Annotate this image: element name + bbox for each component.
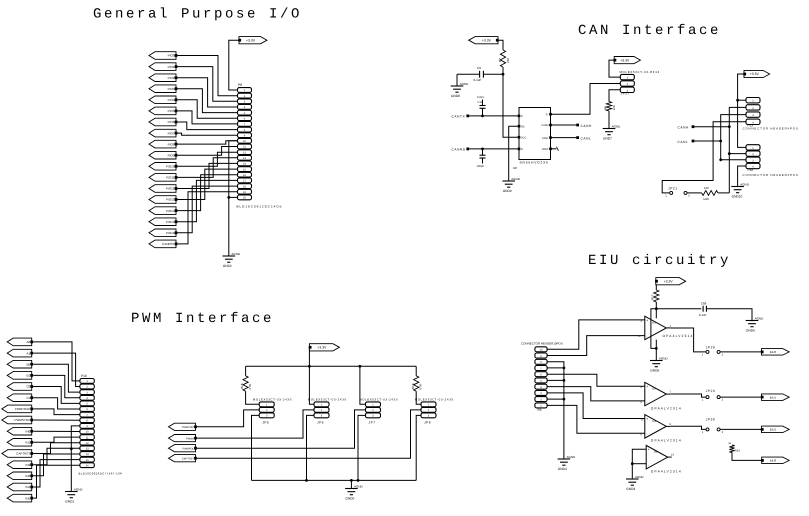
- junction C10 tap: [481, 115, 484, 118]
- wire R16 to JP8 pin1: [416, 391, 421, 404]
- svg-text:JP30: JP30: [706, 418, 716, 422]
- op-amp U9D OPA4LV2314 (unused): [646, 445, 682, 473]
- svg-text:A0: A0: [27, 340, 31, 344]
- resistor R16 4.7K: [411, 366, 423, 391]
- wire PIO13 to P8 pin15: [178, 169, 238, 199]
- wire IN4 to P10 pin15: [33, 460, 80, 487]
- wire CANRD to U8 pin R: [469, 148, 519, 150]
- wire U8 CANL to net label: [551, 137, 577, 139]
- resistor R15 4.7K: [240, 366, 252, 391]
- wire U9B out to JP29: [670, 394, 705, 397]
- net flag PWMTRAP: [2, 405, 33, 413]
- svg-text:AGND: AGND: [74, 488, 84, 492]
- connector P18 header 4-pin: [743, 145, 799, 177]
- svg-text:AGND: AGND: [354, 485, 364, 489]
- svg-text:PIO4: PIO4: [168, 98, 175, 102]
- net flag CANH (right): [678, 125, 695, 129]
- wire VCC to U8: [503, 74, 519, 137]
- wire R40 to CANH vertical: [718, 192, 729, 194]
- wire P18 pin4 to ground: [738, 166, 746, 187]
- wire PIO2 to P8 pin4: [178, 78, 238, 107]
- resistor R7 240: [498, 50, 510, 67]
- capacitor C9 0.1uF: [457, 66, 503, 82]
- net flag EIU1: [761, 394, 789, 401]
- jumper header JP5 MOLEX 3-pin: [253, 397, 292, 424]
- svg-text:PIO10: PIO10: [166, 165, 175, 169]
- svg-text:MOLEX53CT-03-243S: MOLEX53CT-03-243S: [308, 397, 347, 401]
- svg-text:PIO8: PIO8: [168, 142, 175, 146]
- svg-text:VREF: VREF: [542, 148, 549, 151]
- wire R17 to U9A V+: [655, 302, 657, 318]
- capacitor C68 0.1uF: [699, 302, 707, 317]
- wire JP21 pin2 to R40: [687, 192, 701, 194]
- net flag PWMPOL (PWM mid): [169, 445, 197, 452]
- jumper header JP27 MOLEX 3-pin: [620, 70, 660, 95]
- net flag PWMA (PWM mid): [169, 435, 197, 442]
- wire CANTX to U8 pin D: [469, 115, 519, 117]
- svg-text:GND3: GND3: [626, 487, 635, 491]
- svg-text:U9: U9: [654, 450, 658, 454]
- op-amp U9A OPA4LV2314: [638, 316, 694, 340]
- wire PIO5 to P8 pin7: [178, 111, 238, 124]
- capacitor C10 100pF: [477, 96, 486, 116]
- svg-text:+3.3V: +3.3V: [620, 58, 630, 62]
- svg-text:EIU3: EIU3: [770, 459, 777, 463]
- net flag EIU3: [761, 457, 789, 464]
- ground GND10 (P18): [731, 183, 749, 199]
- svg-text:OPA4LV2314: OPA4LV2314: [663, 334, 694, 338]
- wire U8 R pin to JP27 pin2: [551, 84, 621, 115]
- junction gnd bus: [563, 367, 566, 401]
- svg-text:MOLEX53CT-03-243S: MOLEX53CT-03-243S: [415, 397, 454, 401]
- jumper JP28: [702, 345, 724, 356]
- svg-text:CANH: CANH: [541, 124, 548, 127]
- svg-text:C1: C1: [26, 396, 30, 400]
- svg-text:R7: R7: [498, 58, 502, 62]
- wire gnd tap: [350, 480, 352, 488]
- svg-text:A1: A1: [27, 351, 31, 355]
- net flag PIO0: [149, 52, 177, 60]
- svg-text:-: -: [646, 400, 647, 404]
- net flag PIO12: [149, 185, 177, 193]
- wire power to top rail: [308, 349, 310, 367]
- svg-text:CAPTRST: CAPTRST: [16, 452, 30, 456]
- svg-text:0.1uF: 0.1uF: [699, 313, 707, 317]
- wire power to JP27 pin1: [609, 60, 620, 77]
- net flag IN3: [7, 472, 33, 480]
- svg-text:120: 120: [612, 105, 616, 110]
- op-amp U9B OPA4LV2314: [641, 382, 682, 410]
- wire P6 pin1 to U9C -in: [547, 405, 645, 433]
- svg-text:U9: U9: [652, 320, 656, 324]
- svg-text:+3.3V: +3.3V: [246, 38, 256, 42]
- svg-text:GND9: GND9: [503, 189, 512, 193]
- svg-text:PWM Interface: PWM Interface: [131, 311, 274, 327]
- ground GND0 (PWM): [345, 485, 363, 501]
- svg-text:B0: B0: [27, 362, 31, 366]
- junction C11 tap: [481, 148, 484, 151]
- net flag PIO9: [149, 151, 177, 159]
- svg-text:PIO16: PIO16: [166, 231, 175, 235]
- svg-text:+: +: [646, 318, 648, 322]
- wire PIO7 to P8 pin9: [178, 133, 238, 135]
- ground GND1 (P10): [65, 488, 83, 504]
- wire PIO16 to P8 pin18: [178, 186, 238, 233]
- svg-text:JP7: JP7: [369, 420, 376, 424]
- jumper JP21: [665, 187, 690, 198]
- junction V- node: [655, 347, 658, 350]
- jumper header JP8 MOLEX 3-pin: [415, 397, 454, 424]
- wire CANH vertical to P13/P18 pin2: [729, 107, 746, 192]
- wire CAPTRST to P10 pin12: [33, 443, 80, 454]
- net flag PIO15: [149, 218, 177, 226]
- junction power P13 pin1: [736, 99, 739, 102]
- svg-text:JP6: JP6: [317, 420, 324, 424]
- svg-text:IN0: IN0: [26, 429, 31, 433]
- wire rail to JP7 pin1: [360, 366, 366, 404]
- svg-text:AGND: AGND: [635, 475, 645, 479]
- svg-text:PIO12: PIO12: [166, 187, 175, 191]
- svg-text:JP27: JP27: [621, 92, 630, 96]
- svg-text:PIO14: PIO14: [166, 209, 175, 213]
- wire JP8 pin2 to flag row: [197, 410, 421, 458]
- net flag B1: [7, 372, 33, 380]
- wire JP29 to EIU1 flag: [721, 396, 762, 398]
- jumper header JP7 MOLEX 3-pin: [359, 397, 398, 424]
- svg-text:+3.3V: +3.3V: [482, 38, 492, 42]
- svg-text:CANL: CANL: [581, 137, 592, 141]
- svg-text:JP28: JP28: [706, 345, 716, 349]
- svg-text:AGND: AGND: [612, 125, 622, 129]
- wire U9D inputs tied to ground: [632, 449, 646, 479]
- net flag PIO13: [149, 196, 177, 204]
- net flag PIO3: [149, 85, 177, 93]
- svg-text:EIU0: EIU0: [770, 350, 777, 354]
- wire PWMSYNC to P10 pin8: [33, 419, 80, 421]
- svg-text:+3.3V: +3.3V: [664, 279, 674, 283]
- wire top rail: [246, 365, 417, 367]
- wire R8 to ground: [608, 111, 610, 129]
- svg-text:0.1uF: 0.1uF: [474, 78, 482, 82]
- wire PIO9 to P8 pin11: [178, 147, 238, 156]
- wire PIO15 to P8 pin17: [178, 180, 238, 221]
- junction bottom rail JP7: [357, 479, 360, 482]
- resistor R14 1k: [728, 442, 740, 452]
- svg-text:IN5: IN5: [26, 496, 31, 500]
- svg-text:EIU circuitry: EIU circuitry: [588, 253, 731, 269]
- net flag CAPTRST (PWM mid): [169, 455, 197, 462]
- svg-text:GND4: GND4: [558, 467, 567, 471]
- net flag PIO5: [149, 107, 177, 115]
- svg-text:+3.3V: +3.3V: [750, 72, 760, 76]
- svg-text:R14: R14: [735, 449, 741, 453]
- wire U8 RS to ground: [509, 126, 519, 181]
- svg-text:P18: P18: [748, 168, 754, 172]
- svg-text:100pF: 100pF: [477, 96, 485, 99]
- net flag IN1: [7, 439, 33, 447]
- svg-text:SN65HVD230: SN65HVD230: [520, 160, 549, 164]
- svg-text:+: +: [648, 448, 650, 452]
- junction bottom rail gnd tap: [350, 479, 353, 482]
- svg-text:IN4: IN4: [26, 485, 31, 489]
- svg-text:R40: R40: [704, 197, 710, 201]
- svg-text:PIO15: PIO15: [166, 220, 175, 224]
- wire rail to JP6 pin1: [309, 366, 314, 404]
- svg-text:BLD16C0812DC14Gb: BLD16C0812DC14Gb: [237, 204, 283, 208]
- svg-text:P10: P10: [81, 374, 87, 378]
- wire B0 to P10 pin3: [33, 364, 80, 392]
- ground GND7 (R8): [603, 125, 621, 141]
- wire PIO4 to P8 pin6: [178, 100, 238, 118]
- svg-text:PIO0: PIO0: [168, 54, 175, 58]
- svg-text:R16: R16: [411, 383, 415, 389]
- svg-text:120: 120: [704, 186, 709, 190]
- svg-text:+: +: [646, 385, 648, 389]
- svg-text:PWMA: PWMA: [186, 437, 194, 440]
- svg-text:D: D: [521, 115, 523, 118]
- svg-text:GND0: GND0: [345, 496, 354, 500]
- svg-text:PIO9: PIO9: [168, 153, 175, 157]
- svg-text:CANH: CANH: [678, 126, 690, 130]
- net flag PIO16: [149, 229, 177, 237]
- no-connect U8 VREF: [551, 147, 559, 151]
- net flag PIO8: [149, 140, 177, 148]
- wire power to R17: [655, 285, 657, 290]
- net flag PIO1: [149, 63, 177, 71]
- svg-text:IN1: IN1: [26, 441, 31, 445]
- ground GND5 (U9A): [650, 357, 668, 373]
- svg-text:CANL: CANL: [678, 140, 689, 144]
- resistor R8 120: [603, 102, 616, 112]
- net flag C1: [7, 394, 33, 402]
- net flag C0: [7, 383, 33, 391]
- svg-text:General Purpose I/O: General Purpose I/O: [93, 7, 302, 23]
- svg-text:-: -: [646, 334, 647, 338]
- net flag CANH (U8): [576, 124, 592, 128]
- svg-text:JP21: JP21: [668, 187, 678, 191]
- wire U9A V- to ground: [655, 340, 657, 361]
- jumper JP29: [702, 389, 724, 402]
- wire U8 CANH to net label: [551, 124, 577, 126]
- wire IN5 to P10 pin16: [33, 465, 80, 498]
- svg-text:IN2: IN2: [26, 463, 31, 467]
- svg-text:CANL: CANL: [542, 137, 549, 140]
- power flag +3.3V (CAN left): [469, 37, 499, 44]
- svg-text:+3.3V: +3.3V: [317, 346, 327, 350]
- wire U9A bypass loop: [651, 309, 656, 349]
- svg-text:GND1: GND1: [65, 499, 74, 503]
- svg-text:GND8: GND8: [451, 94, 460, 98]
- op-amp U9C OPA4LV2314: [641, 415, 682, 443]
- net flag PIO2: [149, 74, 177, 82]
- svg-text:OPA4LV2314: OPA4LV2314: [651, 469, 682, 473]
- net flag PIO4: [149, 96, 177, 104]
- connector P10 16-pin header: [79, 374, 123, 475]
- connector P13 header 4-pin: [743, 98, 799, 131]
- wire JP7 pin3 to bottom rail: [358, 415, 366, 480]
- svg-text:BLD16C0816DC7746T-16P: BLD16C0816DC7746T-16P: [79, 472, 123, 476]
- svg-text:240: 240: [506, 58, 510, 63]
- svg-text:CAPTRST: CAPTRST: [182, 457, 195, 460]
- svg-text:CONNECTOR HEADER10POS: CONNECTOR HEADER10POS: [521, 342, 563, 346]
- net flag IN5: [7, 494, 33, 502]
- wire PWMTRAP to P10 pin7: [33, 409, 80, 415]
- svg-text:PIO7: PIO7: [168, 131, 175, 135]
- svg-text:GND10: GND10: [732, 194, 743, 198]
- net flag EIU0: [761, 349, 789, 356]
- svg-text:-: -: [646, 432, 647, 436]
- wire CANL bus: [694, 140, 720, 142]
- svg-text:VCC: VCC: [521, 136, 526, 139]
- svg-text:4.7K: 4.7K: [418, 384, 422, 390]
- svg-text:CANRST: CANRST: [162, 242, 175, 246]
- svg-text:AGND: AGND: [231, 252, 241, 256]
- wire PIO10 to P8 pin12: [178, 152, 238, 166]
- wire C68 to ground: [706, 309, 752, 321]
- net flag B0: [7, 360, 33, 368]
- svg-text:JP29: JP29: [706, 389, 716, 393]
- svg-text:R8: R8: [603, 106, 607, 110]
- svg-text:IN3: IN3: [26, 474, 31, 478]
- net flag CANRD: [452, 147, 470, 151]
- svg-text:AGND: AGND: [511, 177, 521, 181]
- net flag CAPTRST: [2, 450, 33, 458]
- junction CANH: [728, 125, 731, 155]
- junction CANL: [719, 140, 722, 162]
- svg-text:PWMTRIP: PWMTRIP: [182, 426, 195, 429]
- net flag CANRST: [149, 240, 177, 248]
- svg-text:GND2: GND2: [223, 264, 232, 268]
- svg-text:JP8: JP8: [424, 420, 431, 424]
- svg-text:GND6: GND6: [746, 328, 755, 332]
- wire JP5 pin3 to bottom rail: [252, 415, 260, 480]
- ground GND2 (GPIO): [223, 252, 241, 268]
- wire PIO11 to P8 pin13: [178, 158, 238, 178]
- wire A1 to P10 pin2: [33, 353, 80, 386]
- wire PIO1 to P8 pin3: [178, 67, 238, 102]
- svg-text:PWMPOL: PWMPOL: [182, 447, 194, 450]
- svg-text:P6: P6: [538, 408, 542, 412]
- wire P8 gnd bus: [229, 141, 238, 256]
- svg-text:MOLEX53CT-03-243S: MOLEX53CT-03-243S: [359, 397, 398, 401]
- svg-text:R: R: [546, 113, 548, 116]
- op IC U8 SN65HVD230 CAN transceiver: [513, 108, 552, 170]
- wire JP7 pin2 to flag row: [197, 410, 366, 448]
- jumper JP30: [702, 418, 724, 434]
- svg-text:4.7K: 4.7K: [248, 384, 252, 390]
- svg-text:U9: U9: [652, 387, 656, 391]
- svg-text:GND7: GND7: [603, 136, 612, 140]
- wire JP5 pin2 to flag row: [197, 410, 259, 427]
- wire JP30 to EIU2 flag: [721, 428, 762, 430]
- wire C9 to ground: [456, 74, 458, 86]
- svg-text:C9: C9: [477, 66, 481, 70]
- wire power to P8 pin1: [229, 40, 241, 90]
- wire U9A out to JP28: [670, 328, 705, 352]
- svg-text:R: R: [521, 148, 523, 151]
- wire CANRST to P8 pin19: [178, 192, 238, 244]
- net flag PIO14: [149, 207, 177, 215]
- svg-text:JP5: JP5: [262, 420, 269, 424]
- svg-text:-: -: [648, 463, 649, 467]
- net flag CANTX: [452, 114, 470, 118]
- svg-text:EIU2: EIU2: [770, 428, 777, 432]
- wire IN1 to P10 pin11: [33, 437, 80, 442]
- connector P6 header 10-pin: [521, 342, 563, 412]
- net flag CANL (U8): [576, 136, 591, 140]
- svg-text:GND5: GND5: [650, 368, 659, 372]
- wire CANH bus: [694, 126, 729, 128]
- svg-text:OPA4LV2314: OPA4LV2314: [651, 439, 682, 443]
- wire P6 pin9 to U9A -in: [547, 336, 645, 356]
- junction rail power: [308, 365, 311, 368]
- net flag CANL (right): [678, 140, 695, 144]
- net flag IN4: [7, 483, 33, 491]
- power flag +3.3V (CAN right): [743, 70, 769, 77]
- wire R15 to JP5 pin1: [246, 391, 260, 404]
- junction P10 gnd: [70, 447, 73, 450]
- wire CANL vertical to P13/P18 pin3: [721, 115, 746, 160]
- junction bottom rail JP6: [305, 479, 308, 482]
- wire PIO3 to P8 pin5: [178, 89, 238, 113]
- ground GND8 (C9): [451, 82, 469, 98]
- wire R14 to EIU3 flag: [732, 453, 762, 461]
- svg-text:R15: R15: [240, 383, 244, 389]
- svg-text:PIO11: PIO11: [166, 176, 175, 180]
- power flag +3.3V (PWM): [309, 344, 340, 351]
- svg-text:AGND: AGND: [740, 183, 750, 187]
- wire P10 pin9 to ground: [71, 426, 80, 492]
- svg-text:100pF: 100pF: [477, 165, 485, 168]
- svg-text:CANH: CANH: [581, 124, 593, 128]
- junction P8 pin20 gnd: [227, 196, 230, 199]
- wire PIO8 to P8 pin10: [178, 141, 238, 144]
- svg-text:CONNECTOR HEADER4POS: CONNECTOR HEADER4POS: [743, 173, 799, 177]
- svg-text:OPA4LV2314: OPA4LV2314: [651, 406, 682, 410]
- svg-text:P8: P8: [238, 83, 242, 87]
- svg-text:PIO1: PIO1: [168, 65, 175, 69]
- svg-text:PIO3: PIO3: [168, 87, 175, 91]
- junction U9D -in: [631, 462, 634, 465]
- net flag IN2: [7, 461, 33, 469]
- junction rail JP7 feed: [359, 365, 362, 368]
- wire power flag to R7: [497, 40, 504, 50]
- svg-text:AGND: AGND: [567, 455, 577, 459]
- svg-text:EIU1: EIU1: [770, 395, 777, 399]
- wire P13 pin4 to JP21: [662, 122, 746, 193]
- wire U9C out to JP30: [670, 426, 705, 429]
- wire P6 pin3 to U9C +in: [547, 393, 645, 419]
- net flag PIO7: [149, 129, 177, 137]
- svg-text:B1: B1: [27, 374, 31, 378]
- svg-text:CANRD: CANRD: [452, 147, 466, 151]
- wire JP6 pin3 to bottom rail: [307, 415, 315, 480]
- svg-text:AGND: AGND: [755, 317, 765, 321]
- svg-text:MOLEX53CT-03-RF13: MOLEX53CT-03-RF13: [620, 70, 660, 74]
- wire JP27 pin3 to R8: [609, 90, 620, 102]
- ground GND6 (C68): [746, 317, 764, 333]
- wire PIO0 to P8 pin2: [178, 56, 238, 96]
- power flag +3.3V (EIU): [655, 278, 686, 285]
- ground GND3 (U9D): [626, 475, 644, 491]
- net flag A1: [7, 349, 33, 357]
- wire PIO12 to P8 pin14: [178, 163, 238, 188]
- power flag +3.3V (GPIO): [238, 37, 267, 44]
- ground GND9 (U8 RS): [502, 177, 520, 193]
- wire C0 to P10 pin5: [33, 387, 80, 404]
- svg-text:PIO2: PIO2: [168, 76, 175, 80]
- wire bottom rail: [252, 479, 417, 481]
